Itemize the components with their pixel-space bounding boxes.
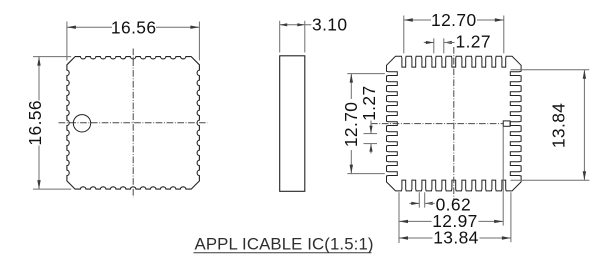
dim 1.27 left arrows/leader: [370, 121, 372, 134]
dim 13.84 right dimension line: [583, 70, 585, 180]
left view: package top view outline: [67, 57, 200, 190]
dim 3.10 dimension line: [280, 24, 312, 26]
dim 16.56 vertical dimension line: [38, 57, 40, 101]
dim 0.62 arrows/leader: [409, 202, 419, 204]
svg-text:16.56: 16.56: [25, 100, 45, 146]
dim 13.84 bottom extension line right: [510, 192, 512, 242]
dim 16.56 horizontal extension lines: [66, 22, 68, 61]
dim 12.70 top dimension line: [404, 19, 431, 21]
dim 12.97 dimension line: [399, 220, 432, 222]
svg-text:1.27: 1.27: [359, 85, 379, 120]
svg-text:1.27: 1.27: [456, 32, 491, 52]
left view vertical centerline: [132, 49, 134, 198]
dim 12.70 left extension lines: [347, 73, 385, 75]
svg-text:12.70: 12.70: [341, 102, 361, 148]
svg-text:APPL ICABLE IC(1.5:1): APPL ICABLE IC(1.5:1): [195, 235, 374, 254]
right view horizontal centerline: [371, 123, 504, 125]
dim 1.27 left extension lines: [364, 133, 378, 135]
svg-text:12.70: 12.70: [431, 10, 477, 30]
dim 12.97 extension lines: [398, 192, 400, 243]
svg-text:13.84: 13.84: [549, 103, 569, 149]
right view vertical centerline: [453, 47, 455, 201]
svg-text:16.56: 16.56: [111, 17, 157, 37]
dim 1.27 top extension lines: [433, 38, 435, 53]
dim 12.70 top extension lines: [403, 16, 405, 54]
middle view: package side view rectangle: [280, 56, 305, 192]
right view lead-tip reference box (mid-right lead): [503, 121, 510, 126]
svg-text:13.84: 13.84: [433, 227, 479, 247]
right view: package bottom view with J-leads: [387, 56, 522, 191]
dim 16.56 vertical extension lines: [33, 56, 71, 58]
svg-text:3.10: 3.10: [312, 14, 347, 34]
left view horizontal centerline: [59, 122, 208, 124]
dim 13.84 bottom dimension line: [399, 237, 433, 239]
dim 13.84 right extension lines: [511, 69, 590, 71]
dim 3.10 extension lines: [279, 21, 281, 53]
dim 0.62 extension lines: [418, 192, 420, 207]
dim 16.56 horizontal dimension line: [67, 26, 112, 28]
pin-1 index circle: [73, 115, 90, 132]
dim 1.27 top arrows/leader: [424, 42, 434, 44]
dim 12.70 left dimension line: [350, 74, 352, 99]
caption underline: [194, 252, 372, 254]
